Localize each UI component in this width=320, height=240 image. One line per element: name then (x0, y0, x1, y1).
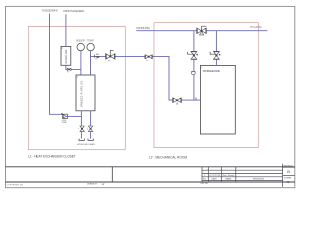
check valve V5 (146, 55, 152, 59)
ball valve V8 on tank inlet (173, 98, 180, 102)
room boundary L1 - heat exchanger closet (28, 27, 125, 150)
glycol feeder tank GF1 (61, 46, 71, 65)
svg-text:HOSE END DRAIN: HOSE END DRAIN (77, 143, 95, 146)
svg-text:PUMP: PUMP (62, 122, 68, 124)
svg-text:M1: M1 (108, 61, 111, 63)
actuator of V6 (202, 26, 207, 30)
svg-text:DRAWN BY: DRAWN BY (87, 183, 98, 186)
wire mechanical room header (136, 30, 267, 32)
svg-text:NO.: NO. (203, 179, 207, 181)
wire HX drain left (80, 111, 82, 139)
fitting F1 union on HWS line (95, 54, 100, 58)
border frame (6, 6, 295, 187)
svg-text:BRAZED PLATE HX: BRAZED PLATE HX (81, 81, 84, 107)
svg-text:L2 - MECHANICAL ROOM: L2 - MECHANICAL ROOM (149, 156, 187, 160)
svg-text:NAME: NAME (226, 178, 232, 181)
title block divider (111, 167, 113, 182)
wire HWS supply: circles tee to mechanical room and down to tank (91, 56, 201, 100)
wire circle1 to HX top (80, 51, 82, 75)
title block top rule (6, 166, 295, 168)
svg-text:SCHEM: SCHEM (284, 177, 292, 179)
wire from PROPYLENE label to glycol feeder top (65, 14, 67, 46)
svg-text:IO: IO (287, 180, 290, 184)
wire circle2 to HX top (90, 51, 92, 75)
svg-text:GLYCOL FDR: GLYCOL FDR (65, 49, 68, 63)
storage tank T1 (200, 65, 235, 134)
svg-text:PROPYLENE FEED: PROPYLENE FEED (63, 9, 85, 13)
svg-text:DATE: DATE (212, 178, 218, 181)
actuator of V7 (188, 52, 194, 54)
motorized 3-way valve V6 (197, 28, 205, 33)
wire from TO BOILER/HX down to pump inlet (50, 14, 63, 115)
revision table (202, 164, 295, 187)
room boundary L2 - mechanical room (154, 23, 258, 148)
svg-text:TEMP: TEMP (87, 39, 94, 43)
pump P1 (63, 114, 68, 118)
title block lower rule (6, 181, 295, 183)
svg-text:2/21/2014: 2/21/2014 (209, 175, 221, 177)
wire left zone drop (193, 31, 195, 100)
svg-text:COPYRIGHT (P): COPYRIGHT (P) (7, 184, 23, 186)
svg-text:TO BOILER/HX: TO BOILER/HX (42, 9, 59, 13)
zone valve V7 (191, 52, 196, 59)
svg-text:(Rev. Name): (Rev. Name) (222, 175, 234, 177)
air vent F2 (192, 71, 196, 75)
svg-text:DRP DB: DRP DB (201, 183, 209, 185)
svg-text:REVISIONS: REVISIONS (253, 179, 265, 181)
wire right zone drop to tank (215, 31, 217, 66)
motorized valve V1 (106, 54, 114, 59)
heat exchanger HX1 (76, 75, 95, 111)
actuator of V1 (110, 50, 113, 56)
svg-text:FROM HX(S): FROM HX(S) (136, 26, 150, 30)
svg-text:BOILER: BOILER (76, 39, 85, 43)
svg-text:REVISION: REVISION (283, 165, 293, 167)
tank inlet stub (195, 97, 197, 100)
hose cap C2 (88, 139, 93, 141)
drain valve V4 (88, 126, 92, 132)
wire HX drain right (90, 111, 92, 139)
drain valve V3 (80, 126, 84, 132)
zone valve V9 (214, 52, 219, 59)
svg-text:L1 - HEAT EXCHANGER CLOSET: L1 - HEAT EXCHANGER CLOSET (28, 155, 76, 159)
valve V2 on feeder outlet (67, 68, 71, 70)
svg-text:STORAGE TANK: STORAGE TANK (203, 69, 221, 73)
svg-text:TO HX(S): TO HX(S) (250, 25, 262, 29)
actuator of V9 (210, 52, 216, 54)
wire feeder outlet elbow to circle line (66, 65, 81, 69)
wire pump outlet to drain header (67, 115, 81, 117)
hose cap C1 (79, 139, 84, 141)
svg-text:B: B (287, 169, 290, 174)
